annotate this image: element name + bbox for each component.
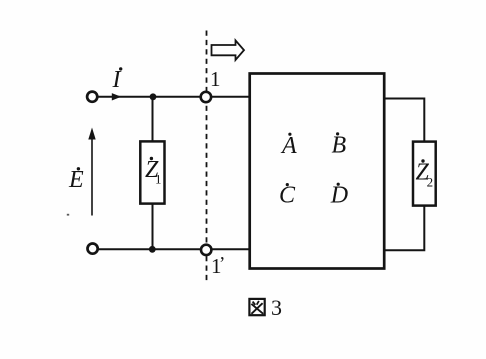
- caption glyph ZU (figure): [249, 299, 264, 315]
- junction top: [150, 93, 157, 100]
- stray ink speck: [67, 214, 69, 216]
- direction arrow (open, right): [212, 40, 245, 60]
- svg-text:B: B: [332, 133, 347, 159]
- svg-text:C: C: [279, 182, 296, 208]
- current arrow I: [112, 93, 121, 100]
- wire right top (box to Z2): [384, 99, 424, 143]
- wire right bottom (Z2 to box): [384, 205, 424, 250]
- wire Z1 top lead: [152, 97, 154, 143]
- svg-text:A: A: [280, 133, 297, 159]
- impedance Z2 box: [413, 142, 436, 206]
- svg-text:2: 2: [427, 175, 434, 190]
- two-port network box U1: [250, 74, 385, 269]
- svg-text:3: 3: [271, 295, 282, 320]
- node 1' terminal: [201, 245, 211, 255]
- svg-text:’: ’: [219, 254, 225, 275]
- svg-text:1: 1: [155, 172, 162, 187]
- svg-text:D: D: [330, 182, 348, 208]
- impedance Z1 box: [140, 141, 164, 203]
- wire Z1 bottom lead: [152, 203, 154, 249]
- svg-text:1: 1: [210, 67, 221, 91]
- terminal top-left: [87, 92, 97, 102]
- terminal bottom-left: [88, 244, 98, 254]
- svg-text:E: E: [68, 167, 84, 193]
- junction bottom: [149, 246, 156, 253]
- node 1 terminal: [201, 92, 211, 102]
- svg-text:I: I: [112, 67, 122, 93]
- wire bottom (source to box): [98, 248, 250, 250]
- dashed section line 1-1': [206, 31, 208, 285]
- wire top (source to box): [98, 96, 250, 98]
- emf arrow E: [91, 137, 93, 216]
